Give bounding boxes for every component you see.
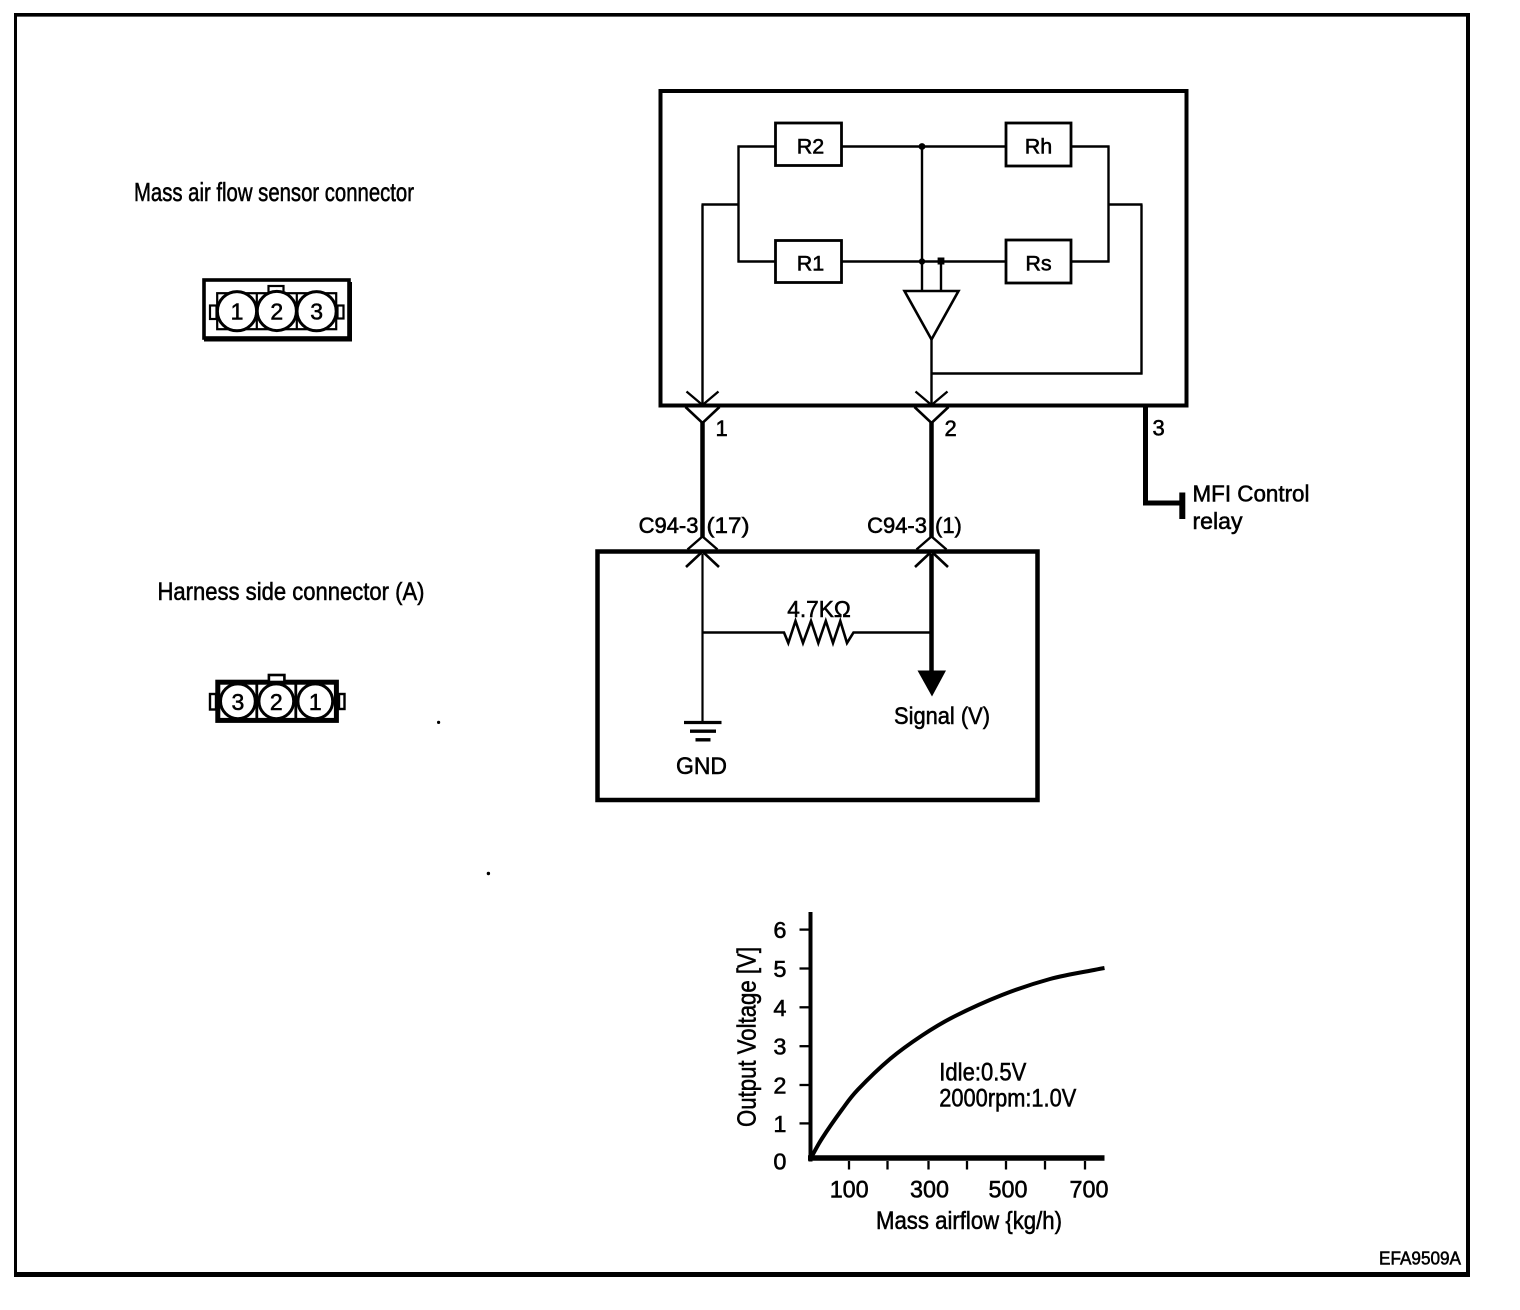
svg-text:EFA9509A: EFA9509A bbox=[1379, 1248, 1462, 1269]
svg-text:1: 1 bbox=[231, 299, 244, 325]
svg-text:R1: R1 bbox=[797, 252, 824, 276]
svg-text:R2: R2 bbox=[797, 135, 824, 159]
svg-text:Mass air flow sensor connector: Mass air flow sensor connector bbox=[134, 177, 414, 207]
svg-text:2: 2 bbox=[773, 1073, 786, 1099]
svg-text:500: 500 bbox=[989, 1177, 1028, 1204]
svg-text:(1): (1) bbox=[935, 513, 962, 538]
svg-text:5: 5 bbox=[773, 956, 786, 982]
svg-text:Harness side connector (A): Harness side connector (A) bbox=[158, 578, 425, 606]
svg-text:Output Voltage [V]: Output Voltage [V] bbox=[732, 947, 762, 1127]
svg-text:6: 6 bbox=[773, 917, 786, 943]
svg-text:3: 3 bbox=[1153, 416, 1165, 441]
svg-text:C94-3: C94-3 bbox=[639, 513, 699, 538]
svg-text:C94-3: C94-3 bbox=[867, 513, 927, 538]
svg-text:3: 3 bbox=[310, 299, 323, 325]
svg-text:3: 3 bbox=[232, 689, 245, 715]
svg-text:Idle:0.5V: Idle:0.5V bbox=[939, 1059, 1026, 1087]
svg-text:Rs: Rs bbox=[1025, 252, 1051, 276]
svg-text:2: 2 bbox=[270, 689, 283, 715]
svg-text:MFI Control: MFI Control bbox=[1193, 481, 1310, 507]
svg-text:Mass airflow {kg/h): Mass airflow {kg/h) bbox=[876, 1207, 1062, 1235]
svg-text:1: 1 bbox=[773, 1111, 786, 1137]
svg-text:0: 0 bbox=[773, 1149, 786, 1175]
svg-text:700: 700 bbox=[1070, 1177, 1109, 1204]
svg-text:1: 1 bbox=[309, 689, 322, 715]
svg-text:Signal (V): Signal (V) bbox=[894, 703, 990, 730]
svg-text:1: 1 bbox=[716, 416, 728, 441]
svg-text:(17): (17) bbox=[707, 513, 750, 538]
svg-text:Rh: Rh bbox=[1025, 135, 1052, 159]
svg-text:3: 3 bbox=[773, 1034, 786, 1060]
svg-text:2000rpm:1.0V: 2000rpm:1.0V bbox=[939, 1085, 1076, 1113]
svg-text:4.7KΩ: 4.7KΩ bbox=[787, 596, 851, 622]
svg-text:GND: GND bbox=[676, 753, 727, 780]
svg-text:2: 2 bbox=[270, 298, 283, 324]
svg-text:relay: relay bbox=[1193, 508, 1243, 534]
svg-text:100: 100 bbox=[830, 1177, 869, 1204]
svg-text:4: 4 bbox=[773, 995, 786, 1021]
svg-text:300: 300 bbox=[910, 1177, 949, 1204]
svg-text:2: 2 bbox=[945, 416, 957, 441]
